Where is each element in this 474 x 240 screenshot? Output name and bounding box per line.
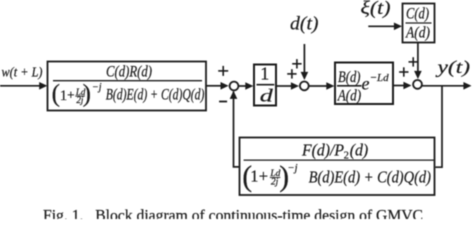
block noise filter C(d)/A(d) xyxy=(403,4,435,43)
svg-text:−Ld: −Ld xyxy=(370,72,389,84)
svg-text:B(d): B(d) xyxy=(338,69,361,86)
summing junction S1 xyxy=(230,82,239,91)
plus signs at sum2 xyxy=(287,59,301,79)
svg-text:d: d xyxy=(260,85,273,105)
svg-text:w(t + L): w(t + L) xyxy=(2,64,43,79)
block plant B(d)/A(d) e^-Ld xyxy=(335,63,393,105)
svg-text:F(d)/P: F(d)/P xyxy=(301,140,344,159)
svg-text:1: 1 xyxy=(260,64,269,84)
svg-text:d(t): d(t) xyxy=(290,14,319,35)
summing junction S3 xyxy=(413,80,422,89)
svg-text:A(d): A(d) xyxy=(337,87,361,104)
wire input w xyxy=(0,85,41,87)
svg-text:C(d)R(d): C(d)R(d) xyxy=(106,63,152,80)
svg-text:C(d): C(d) xyxy=(406,6,429,23)
svg-text:A(d): A(d) xyxy=(405,25,430,42)
svg-text:(d): (d) xyxy=(350,140,369,159)
svg-text:B(d)E(d) + C(d)Q(d): B(d)E(d) + C(d)Q(d) xyxy=(106,86,205,103)
svg-text:−j: −j xyxy=(288,163,298,174)
svg-text:1: 1 xyxy=(250,166,258,185)
minus sign at sum1 xyxy=(219,101,227,103)
svg-text:y(t): y(t) xyxy=(435,57,470,78)
wire 1/d to sum2 xyxy=(277,85,292,87)
svg-text:+: + xyxy=(259,166,268,185)
svg-text:(: ( xyxy=(52,81,60,108)
wire feedback tap xyxy=(436,86,443,167)
plus sign at sum1 xyxy=(218,66,228,76)
block 1/d xyxy=(254,64,276,106)
block feedback F(d)/P2(d) over denominator xyxy=(240,138,435,196)
wire C/A to sum3 xyxy=(417,43,419,72)
svg-text:e: e xyxy=(362,73,370,93)
svg-text:ξ(t): ξ(t) xyxy=(361,0,391,19)
svg-text:): ) xyxy=(83,81,91,108)
wire block1 to sum1 xyxy=(207,85,222,87)
svg-text:2j: 2j xyxy=(271,178,279,188)
wire feedback to sum1 minus xyxy=(234,92,240,167)
plus signs at sum3 xyxy=(399,57,418,76)
svg-text:B(d)E(d) + C(d)Q(d): B(d)E(d) + C(d)Q(d) xyxy=(309,167,432,186)
wire plant to sum3 xyxy=(394,85,405,87)
block controller C(d)R(d) over denominator xyxy=(48,62,207,111)
wire sum2 to plant xyxy=(309,85,327,87)
wire sum3 to output y xyxy=(422,85,464,87)
svg-text:−j: −j xyxy=(92,82,102,93)
summing junction S2 xyxy=(300,82,309,91)
wire d(t) to sum2 xyxy=(303,44,305,73)
svg-text:Fig. 1. Block diagram of con: Fig. 1. Block diagram of continuous-time… xyxy=(43,208,423,220)
wire sum1 to 1/d xyxy=(239,85,246,87)
wire xi to C/A block xyxy=(368,25,394,27)
svg-text:+: + xyxy=(67,88,75,103)
